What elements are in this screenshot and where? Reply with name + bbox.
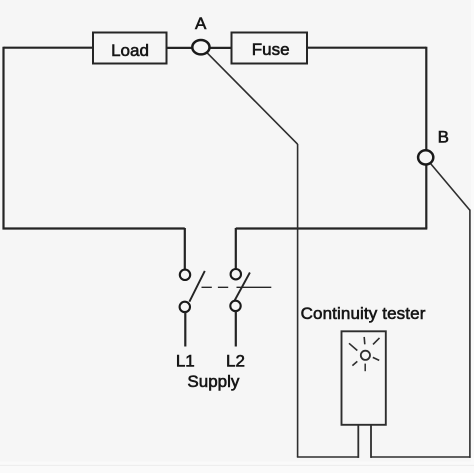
svg-text:Fuse: Fuse [252, 40, 290, 59]
switch L1 top contact [180, 270, 190, 280]
wire: bottom-right of tester [371, 456, 471, 458]
svg-text:A: A [195, 14, 207, 33]
switch L2 bottom contact [230, 301, 240, 311]
svg-text:L1: L1 [176, 352, 195, 371]
wire: diagonal from node A down to tester left branch [206, 52, 298, 144]
wire: left tester vertical [297, 144, 299, 457]
switch L2 top contact [231, 269, 241, 279]
switch L2 drop wire [235, 228, 237, 269]
switch L2 bottom lead [235, 311, 237, 347]
wire: right tester vertical [469, 210, 471, 458]
continuity tester box [342, 331, 386, 425]
svg-text:Load: Load [111, 41, 149, 60]
lamp ray up [363, 337, 366, 344]
wire top-left: left edge to Load [4, 47, 94, 49]
switch L2 blade [234, 273, 250, 303]
wire bottom-right horizontal [236, 227, 427, 229]
wire: Load to node A [167, 47, 193, 49]
Fuse box [232, 33, 308, 64]
switch L1 drop wire [184, 228, 186, 270]
svg-text:L2: L2 [226, 352, 245, 371]
lamp ray upper-left [349, 343, 357, 350]
svg-text:B: B [438, 128, 449, 147]
lamp circle [361, 351, 370, 360]
lamp ray upper-right [373, 338, 380, 345]
wire: node A to Fuse [209, 47, 232, 49]
lamp ray lower-left [352, 361, 357, 365]
node A [192, 40, 209, 54]
node B [418, 150, 433, 164]
wire: diagonal from node B [430, 163, 470, 210]
lamp ray lower-right [373, 357, 379, 360]
wire: tester left lead up into box [357, 425, 359, 458]
lamp ray down [364, 364, 366, 372]
wire right vertical (through node B) [425, 47, 427, 229]
svg-text:Supply: Supply [187, 372, 239, 391]
wire: tester right lead [370, 425, 372, 458]
wire: bottom-left of tester [297, 456, 358, 458]
switch L1 bottom lead [184, 312, 186, 347]
mechanical link dashed [202, 286, 229, 288]
svg-text:Continuity tester: Continuity tester [301, 304, 426, 323]
switch L1 bottom contact [180, 302, 190, 312]
mechanical link solid segment [237, 286, 272, 288]
wire left vertical [2, 47, 4, 230]
wire: Fuse to top-right corner [307, 47, 426, 49]
switch L1 blade [189, 271, 204, 302]
wire bottom-left horizontal [3, 227, 185, 229]
Load box [93, 33, 167, 64]
